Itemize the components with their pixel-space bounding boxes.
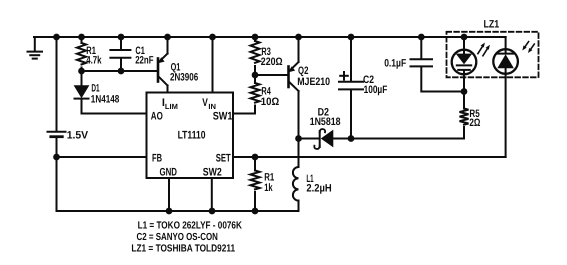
wire bottom rail	[57, 210, 299, 212]
laser diode LD of LZ1	[452, 37, 477, 109]
capacitor C2 100uF	[339, 37, 363, 139]
value label R3 220ohm	[261, 46, 283, 68]
svg-text:0.1µF: 0.1µF	[384, 58, 406, 70]
resistor R4 10ohm	[251, 75, 260, 103]
svg-text:100µF: 100µF	[364, 84, 388, 96]
svg-text:L1 = TOKO 262LYF - 0076K: L1 = TOKO 262LYF - 0076K	[138, 220, 243, 231]
wire SW2 to bottom rail	[211, 178, 213, 211]
value label D2 1N5818	[310, 107, 341, 128]
diode D1 1N4148	[75, 71, 89, 114]
op-amp U1 LT1110 converter IC body	[147, 93, 234, 179]
svg-text:4.7k: 4.7k	[86, 55, 102, 67]
wire GND to bottom rail	[168, 178, 170, 211]
battery BT1 1.5V	[48, 37, 66, 211]
wire top supply rail	[34, 36, 506, 38]
capacitor C3 0.1uF	[411, 37, 465, 92]
svg-text:Q2: Q2	[298, 65, 308, 77]
laser emission arrows	[478, 43, 490, 56]
svg-text:10Ω: 10Ω	[261, 96, 280, 108]
svg-text:1N4148: 1N4148	[91, 93, 120, 105]
svg-text:SET: SET	[216, 153, 231, 165]
wire D1 to pin AO	[82, 113, 147, 115]
photodiode PD of LZ1	[493, 37, 518, 157]
inductor L1 2.2uH	[293, 167, 299, 211]
svg-text:220Ω: 220Ω	[261, 56, 283, 68]
svg-text:2Ω: 2Ω	[469, 117, 480, 129]
module LZ1 dashed outline	[447, 32, 539, 78]
svg-text:C2 = SANYO OS-CON: C2 = SANYO OS-CON	[137, 232, 218, 243]
svg-text:LT1110: LT1110	[178, 129, 206, 141]
resistor R3 220ohm	[251, 37, 260, 75]
value label Q1 2N3906	[170, 62, 198, 84]
wire SW1 to R4	[233, 106, 255, 114]
svg-text:SW1: SW1	[213, 111, 233, 123]
svg-text:SW2: SW2	[203, 167, 222, 179]
svg-text:LIM: LIM	[165, 102, 178, 111]
svg-text:FB: FB	[152, 153, 162, 165]
svg-text:1N5818: 1N5818	[310, 116, 341, 128]
wire VIN to rail	[212, 37, 214, 93]
pin label VIN	[202, 97, 216, 111]
value label R5 2ohm	[469, 108, 480, 129]
value label L1 2.2uH	[306, 173, 331, 195]
value label C1 22nF	[135, 45, 154, 67]
wire D2/C2 node to R5	[351, 127, 464, 139]
value label R1 1k	[264, 172, 274, 194]
wire node R1/C1/D1/Q1-base	[82, 70, 159, 72]
value label R4 10ohm	[261, 85, 280, 107]
value label C2 100uF	[363, 74, 388, 96]
svg-text:2.2µH: 2.2µH	[306, 182, 331, 194]
transistor Q1 2N3906	[158, 37, 168, 93]
value label Q2 MJE210	[297, 65, 330, 88]
value label D1 1N4148	[91, 83, 120, 106]
svg-text:GND: GND	[160, 167, 178, 179]
notes parts list	[131, 220, 242, 254]
svg-text:1k: 1k	[264, 182, 273, 194]
pin label ILIM	[162, 97, 178, 111]
value label R1 4.7k	[86, 45, 102, 67]
ground	[28, 37, 43, 59]
capacitor C1 22nF	[110, 37, 130, 71]
resistor R1 1k	[250, 157, 259, 211]
wire FB to battery node	[57, 156, 147, 158]
resistor R5 2ohm	[460, 109, 469, 125]
transistor Q2 MJE210	[288, 37, 298, 167]
resistor R1 4.7k	[77, 37, 86, 71]
wire R3/R4 node to Q2 base	[255, 74, 289, 76]
svg-text:IN: IN	[208, 102, 216, 111]
photodiode incident arrows	[522, 42, 534, 53]
wire SET feedback line	[233, 156, 506, 158]
diode D2 1N5818 schottky	[299, 129, 352, 149]
svg-text:1.5V: 1.5V	[67, 130, 89, 142]
svg-text:2N3906: 2N3906	[170, 72, 198, 84]
svg-text:MJE210: MJE210	[297, 76, 330, 88]
svg-text:AO: AO	[151, 111, 163, 123]
svg-text:LZ1: LZ1	[484, 18, 500, 30]
svg-text:22nF: 22nF	[135, 55, 154, 67]
svg-text:LZ1 = TOSHIBA TOLD9211: LZ1 = TOSHIBA TOLD9211	[131, 243, 235, 254]
